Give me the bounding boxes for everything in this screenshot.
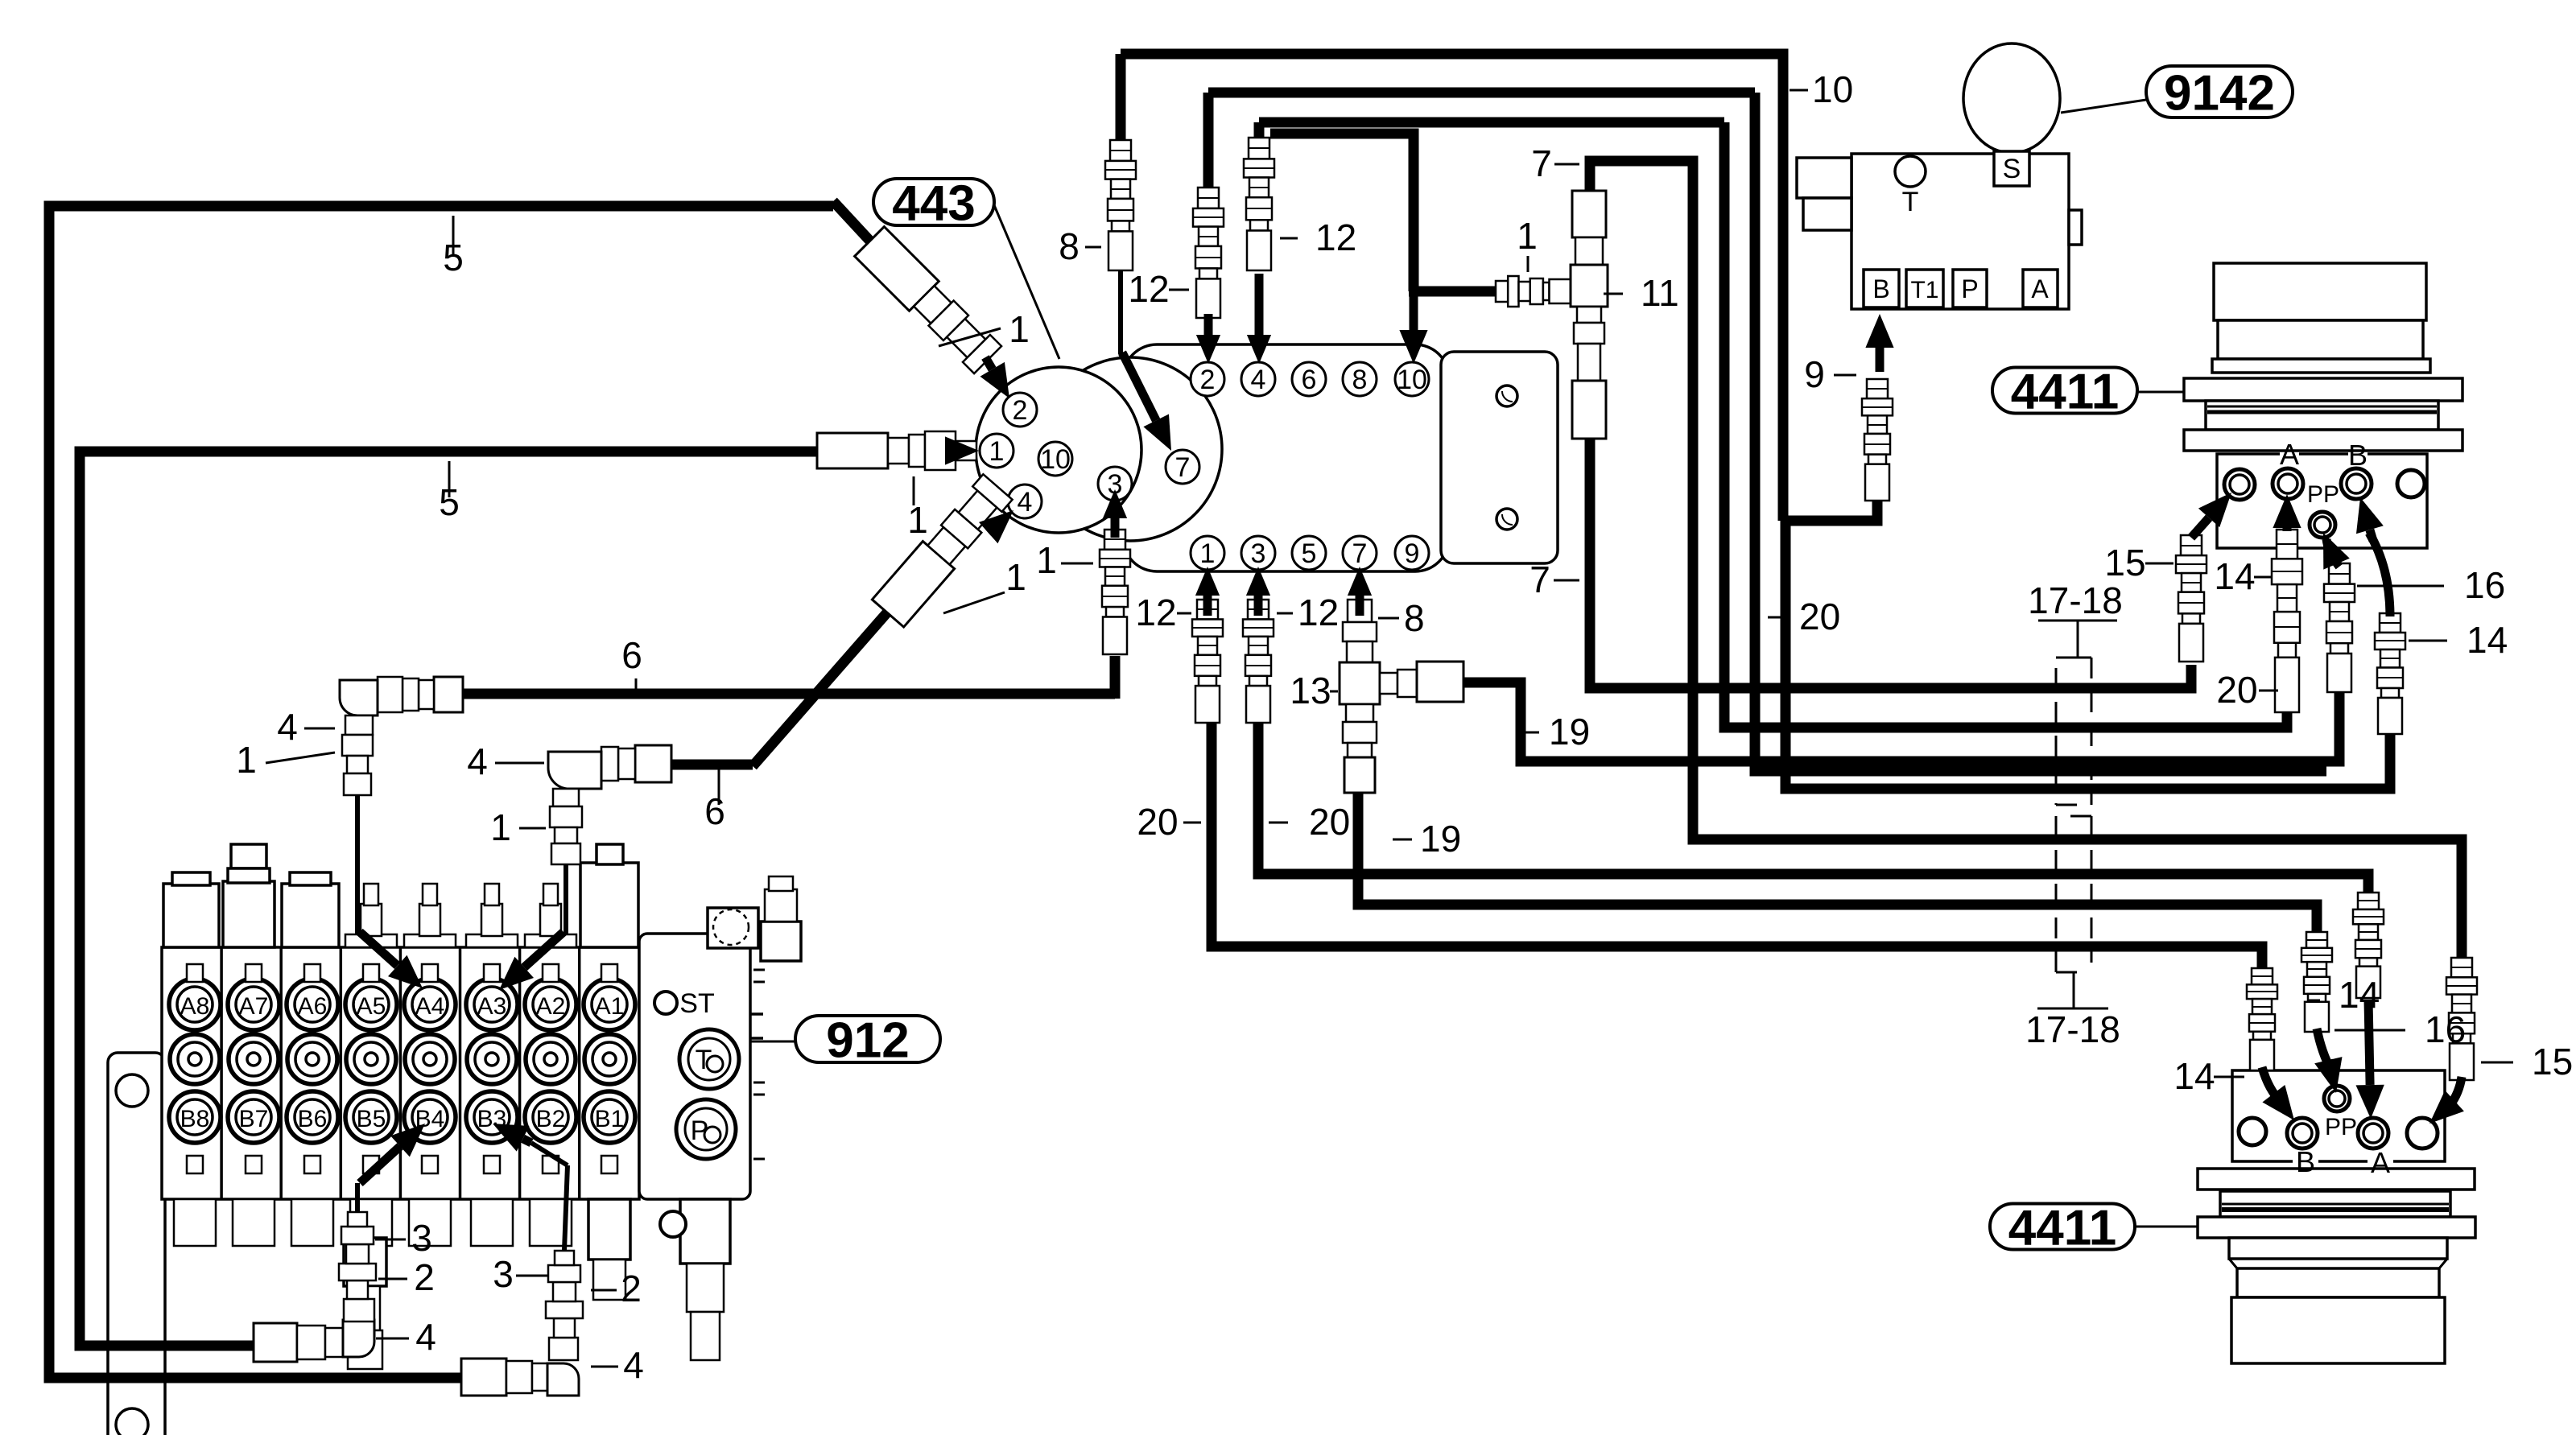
svg-text:2: 2: [414, 1256, 435, 1298]
port PP lower: [2324, 1086, 2350, 1111]
svg-text:1: 1: [1009, 308, 1030, 350]
svg-text:2: 2: [621, 1268, 642, 1309]
svg-text:S: S: [2003, 154, 2021, 184]
leader 443: [994, 205, 1059, 359]
svg-text:A2: A2: [536, 993, 566, 1020]
wire hose from tee to fitting 9: [1785, 499, 1877, 521]
svg-text:T: T: [696, 1045, 712, 1075]
fitting 15 stack: [2181, 535, 2202, 555]
fitting 12 stack below port 3: [1248, 600, 1269, 619]
hex cap fitting top right of 912: [761, 922, 801, 961]
svg-text:1: 1: [490, 806, 511, 848]
bottom cap B1 section: [588, 1199, 630, 1260]
spool circle section 8: [584, 1034, 634, 1084]
svg-text:20: 20: [1799, 596, 1840, 637]
joint face circle: [976, 367, 1141, 533]
spool circle section 6: [467, 1034, 517, 1084]
fitting 12 stack above port 2: [1198, 188, 1219, 208]
wire hose 6 from elbow to port3 stack: [358, 689, 1115, 699]
fitting 1 on hose 6 into face port 4 (diagonal): [872, 473, 1013, 627]
svg-text:4411: 4411: [2008, 1200, 2117, 1256]
ref bubble 912: [795, 1016, 940, 1062]
svg-text:14: 14: [2214, 555, 2255, 597]
svg-text:12: 12: [1135, 592, 1176, 633]
fitting 16 stack lower (PP): [2306, 932, 2327, 948]
wire hose 5 over plate (B4 run): [108, 1341, 254, 1351]
arrow into PP lower: [2324, 1060, 2334, 1062]
lower motor port block: [2232, 1070, 2445, 1161]
spool circle section 1: [170, 1034, 220, 1084]
svg-text:14: 14: [2467, 619, 2508, 661]
svg-text:6: 6: [621, 634, 642, 676]
fitting 3 (B3 line): [548, 1265, 580, 1282]
svg-text:20: 20: [2216, 669, 2257, 711]
ref bubble 9142: [2146, 66, 2293, 118]
svg-text:B1: B1: [595, 1106, 625, 1132]
912 top solenoid caps: [163, 884, 219, 947]
svg-text:A: A: [2031, 274, 2049, 303]
svg-text:4: 4: [1018, 487, 1033, 518]
fitting 12 stack below port 1: [1197, 600, 1218, 619]
fitting 1 left of tee 11: [1496, 281, 1508, 302]
lower taper: [2229, 1238, 2447, 1259]
wire hose row3b: [1755, 93, 2326, 771]
wire hose 5 (port2 to B3 elbow): top run, left drop, bottom run: [49, 206, 833, 1378]
motor flange 1: [2184, 378, 2462, 401]
svg-text:4: 4: [467, 740, 488, 782]
svg-text:10: 10: [1040, 444, 1071, 475]
arrow into A lower: [2368, 1000, 2370, 1085]
spool circle section 4: [346, 1034, 396, 1084]
svg-text:A5: A5: [357, 993, 386, 1020]
fitting 12 stack below face port 3: [1104, 530, 1125, 550]
wire hose 19 from tee13 elbow to top motor 16 fitting (row3): [1457, 682, 2339, 761]
port PP: [2310, 512, 2335, 538]
tee 11 body: [1571, 265, 1608, 307]
svg-text:1: 1: [236, 739, 257, 781]
912 A1 solenoid: [580, 863, 638, 947]
leader 17-18 top: [2077, 621, 2079, 658]
port B1: [584, 1091, 635, 1143]
arrow into B port: [2370, 530, 2373, 541]
port B3: [466, 1091, 518, 1143]
pilot valve 9142 body: [1851, 154, 2069, 309]
svg-text:ST: ST: [679, 988, 714, 1019]
accumulator ball: [1963, 43, 2060, 153]
fitting 12 stack above port 4: [1249, 138, 1269, 159]
fitting 1 below elbow 4 lower: [550, 806, 582, 827]
svg-text:7: 7: [1529, 559, 1550, 600]
svg-text:3: 3: [411, 1217, 432, 1259]
svg-text:6: 6: [1302, 365, 1317, 395]
svg-text:1: 1: [1200, 538, 1216, 569]
spool circle section 2: [229, 1034, 279, 1084]
arrow into face port 1: [945, 447, 955, 456]
arrow into port 3 bottom: [1254, 596, 1263, 616]
fitting 15 stack lower: [2451, 958, 2472, 977]
svg-text:1: 1: [1005, 556, 1026, 598]
wire hose row4 to top motor B fitting: [1785, 516, 2390, 789]
leader 9142: [2061, 100, 2146, 113]
svg-text:4411: 4411: [2011, 364, 2120, 419]
port spare lower: [2239, 1118, 2266, 1145]
ref bubble 443: [873, 179, 994, 225]
svg-text:4: 4: [277, 706, 298, 748]
wire hose 20 from port3 to lower motor A fitting (row6): [1258, 723, 2368, 893]
arrow into face port 4: [989, 531, 990, 533]
spool circle section 7: [526, 1034, 576, 1084]
lower flange 1: [2198, 1169, 2475, 1190]
wire hose 20 from port1 to lower motor 14 fitting (row8): [1212, 723, 2262, 968]
svg-text:4: 4: [1251, 365, 1266, 395]
svg-text:4: 4: [415, 1316, 436, 1358]
arrow into A4: [360, 932, 398, 966]
svg-text:5: 5: [1302, 538, 1317, 569]
svg-text:A8: A8: [180, 993, 210, 1020]
lower cylinder 1: [2237, 1268, 2439, 1297]
svg-text:1: 1: [1036, 539, 1057, 581]
motor segment 2: [2218, 320, 2423, 359]
port B4: [404, 1091, 456, 1143]
leader 912: [750, 1041, 795, 1043]
svg-text:A4: A4: [415, 993, 445, 1020]
arrow into port 2 top: [1204, 314, 1213, 335]
travel motor 4411 top: cylinder: [2214, 263, 2426, 320]
bottom cap end section: [680, 1199, 730, 1264]
wire hose 6 lower from elbow: [566, 760, 753, 770]
svg-text:T: T: [1902, 187, 1919, 217]
fitting 1 on hose 5 into face port 1 (horizontal): [817, 433, 888, 468]
svg-text:6: 6: [704, 790, 725, 832]
port B: [2341, 468, 2372, 499]
fitting 2 (B3 line): [546, 1301, 583, 1318]
port spare: [2397, 470, 2425, 497]
port A8: [169, 979, 221, 1030]
port A3: [466, 979, 518, 1030]
svg-text:2: 2: [1200, 365, 1216, 395]
svg-text:P: P: [691, 1115, 709, 1146]
motor flange 2: [2184, 430, 2462, 451]
svg-text:A6: A6: [298, 993, 328, 1020]
svg-text:11: 11: [1641, 272, 1679, 314]
svg-text:12: 12: [1315, 216, 1356, 258]
svg-text:17-18: 17-18: [2028, 579, 2123, 621]
bolt hole top: [1496, 386, 1517, 406]
svg-text:16: 16: [2464, 564, 2505, 606]
912 bottom caps: [174, 1199, 216, 1246]
port B lower: [2287, 1118, 2318, 1148]
lower flange 2: [2198, 1217, 2475, 1238]
motor port block: [2217, 454, 2427, 548]
hose end + elbow 4 (to B3): [461, 1359, 506, 1396]
port A2: [525, 979, 576, 1030]
arrow into A3: [524, 932, 563, 967]
svg-text:1: 1: [989, 436, 1005, 467]
motor ring band: [2206, 401, 2438, 430]
svg-text:14: 14: [2339, 974, 2380, 1016]
svg-text:A1: A1: [595, 993, 625, 1020]
wire hose 19 from tee13 down to lower 16 fitting (row7): [1358, 789, 2317, 932]
arrow into port 7 bottom: [1356, 596, 1364, 616]
fitting 1 on hose 5 into face port 2 (diagonal): [855, 227, 1003, 375]
port drain: [2224, 469, 2255, 500]
svg-text:3: 3: [1251, 538, 1266, 569]
svg-text:A3: A3: [477, 993, 507, 1020]
svg-text:8: 8: [1059, 225, 1080, 267]
port A lower: [2358, 1118, 2388, 1148]
ST port: [654, 992, 677, 1014]
fitting 14 stack lower (B): [2252, 968, 2273, 984]
joint mounting plate: [1441, 352, 1558, 563]
wire hose 10 top run: [1121, 54, 1783, 521]
svg-text:9142: 9142: [2164, 65, 2275, 121]
svg-text:10: 10: [1812, 68, 1853, 110]
svg-text:B: B: [2296, 1145, 2315, 1178]
wire hose 6 diagonal to port4 fitting: [753, 612, 888, 766]
svg-text:14: 14: [2173, 1055, 2215, 1097]
fitting 16 stack (PP): [2329, 563, 2350, 584]
port A1: [584, 979, 635, 1030]
arrow into A port: [2283, 528, 2292, 531]
svg-text:16: 16: [2425, 1008, 2466, 1050]
svg-text:12: 12: [1128, 268, 1169, 310]
arrow into face port 3: [1111, 518, 1120, 538]
wire hose (port 4 top) run: [1259, 118, 1724, 128]
T vent: [1895, 156, 1926, 187]
spool circle section 3: [287, 1034, 337, 1084]
svg-text:PP: PP: [2325, 1114, 2357, 1140]
fitting 8 stack above face port 7: [1110, 140, 1131, 161]
svg-text:13: 13: [1290, 670, 1331, 711]
arrow into B lower: [2273, 1094, 2278, 1099]
wire hose row2 to top motor A fitting: [1724, 122, 2287, 728]
port B8: [169, 1091, 221, 1143]
port B2: [525, 1091, 576, 1143]
svg-text:A: A: [2280, 438, 2299, 471]
port A4: [404, 979, 456, 1030]
svg-text:1: 1: [1517, 215, 1538, 257]
svg-text:8: 8: [1404, 597, 1425, 639]
wire thin hose down to A4: [355, 795, 360, 934]
svg-text:10: 10: [1397, 365, 1427, 395]
arrow into port 4 top: [1255, 274, 1264, 335]
bolt hole bottom: [1496, 509, 1517, 530]
wire riser into face port3 stack: [1110, 656, 1121, 699]
port A7: [228, 979, 279, 1030]
elbow 4 upper (to A4): [434, 677, 463, 712]
wire hose to port 10 branch: [1270, 134, 1414, 291]
fitting 14 stack (B): [2380, 613, 2401, 633]
svg-text:7: 7: [1175, 452, 1191, 483]
lower cylinder 2: [2231, 1297, 2445, 1363]
spool circle section 5: [405, 1034, 455, 1084]
elbow 4 lower (to A3): [635, 745, 671, 782]
port B6: [287, 1091, 338, 1143]
joint rear flange circle: [1038, 357, 1222, 541]
912 pilot stems: [345, 934, 397, 947]
wire hose 7 down from tee 11 then right to fitting 15 (row1): [1590, 191, 2191, 688]
wire drop to port2 fitting: [1203, 93, 1214, 188]
tee 13 body: [1340, 662, 1380, 704]
wire hose tee11 to port10 corner: [1409, 287, 1496, 297]
svg-text:B5: B5: [357, 1106, 386, 1132]
port A: [2273, 468, 2303, 499]
svg-text:8: 8: [1352, 365, 1368, 395]
port spare lower right: [2407, 1118, 2438, 1148]
svg-text:12: 12: [1298, 592, 1339, 633]
fitting 9 stack: [1867, 379, 1888, 398]
svg-text:2: 2: [1013, 395, 1028, 426]
wire thin hose up toward B4: [355, 1183, 360, 1212]
svg-text:PP: PP: [2307, 481, 2339, 508]
hose end + elbow 4 (to B4): [254, 1323, 297, 1362]
svg-text:B: B: [1872, 274, 1889, 303]
top ports row on joint body: [1191, 362, 1224, 396]
svg-text:T1: T1: [1910, 277, 1938, 303]
wire thin hose 8 down: [1118, 270, 1123, 354]
P port: [676, 1099, 736, 1159]
mounting plate left of 912: [108, 1053, 165, 1435]
arrow into port 1 bottom: [1203, 596, 1212, 616]
svg-text:B6: B6: [298, 1106, 328, 1132]
wire hose to lower motor 15 fitting (row5): [1590, 161, 2462, 958]
svg-text:1: 1: [907, 499, 928, 541]
fitting 14 stack lower (A): [2358, 893, 2379, 909]
svg-text:9: 9: [1405, 538, 1420, 569]
svg-text:19: 19: [1549, 711, 1590, 753]
svg-text:7: 7: [1531, 142, 1552, 184]
rotary joint 443 body: [1123, 344, 1449, 571]
fitting 2 (B4 line): [339, 1264, 376, 1280]
arrow into face port 7: [1122, 353, 1156, 420]
motor lip: [2212, 359, 2430, 373]
leader 4411 bottom: [2135, 1226, 2198, 1228]
bolt hole lug bottom of 912: [660, 1211, 686, 1237]
svg-text:A: A: [2371, 1146, 2390, 1179]
left tab lower: [1803, 198, 1851, 230]
face ports: [1003, 393, 1037, 427]
svg-text:17-18: 17-18: [2025, 1008, 2120, 1050]
wire hose 5 diagonal into fitting: [833, 201, 884, 256]
svg-text:3: 3: [493, 1253, 514, 1295]
912 end section with ST/T/P: [639, 934, 750, 1199]
wire drop to port4 fitting: [1254, 122, 1265, 138]
ref bubble 4411 top: [1992, 368, 2137, 414]
arrow into port 10 top: [1410, 290, 1418, 330]
fitting 14 stack (A): [2277, 530, 2297, 559]
arrow into drain port: [2191, 518, 2209, 538]
leader 4411 top: [2137, 391, 2184, 394]
arrow into B3: [523, 1139, 531, 1143]
arrow into spare port lower: [2447, 1101, 2454, 1107]
wire thin hose down to A3: [563, 864, 568, 934]
svg-text:B8: B8: [180, 1106, 210, 1132]
arrow into B4: [360, 1146, 400, 1183]
ref bubble 4411 bottom: [1990, 1204, 2135, 1250]
svg-text:B7: B7: [239, 1106, 269, 1132]
port B7: [228, 1091, 279, 1143]
svg-text:P: P: [1961, 274, 1978, 303]
svg-text:15: 15: [2104, 542, 2145, 583]
port A5: [345, 979, 397, 1030]
tee 13 right branch elbow: [1380, 673, 1397, 694]
bottom fitting section 6: [344, 1238, 386, 1286]
port A6: [287, 979, 338, 1030]
bottom port boxes B T1 P A: [1864, 270, 1899, 307]
right tab: [2069, 210, 2082, 245]
leader 17-18 bottom: [2073, 972, 2075, 1008]
svg-text:443: 443: [892, 175, 975, 231]
svg-text:4: 4: [623, 1344, 644, 1386]
clamp 17-18 dashed bundle: [2056, 658, 2091, 972]
arrow into face port 2: [985, 357, 993, 369]
svg-text:912: 912: [826, 1012, 909, 1068]
svg-text:15: 15: [2532, 1041, 2573, 1082]
svg-text:20: 20: [1137, 801, 1178, 843]
912 block body: [162, 947, 639, 1199]
arrow into PP port: [2328, 544, 2337, 564]
left tab upper: [1797, 158, 1851, 198]
912 relief valve on end section: [708, 908, 758, 948]
svg-text:20: 20: [1309, 801, 1350, 843]
fitting 1 below elbow 4 upper: [342, 735, 373, 756]
tee 11 hose end top: [1572, 191, 1606, 237]
arrow into valve port B: [1876, 348, 1885, 372]
wire hose (port 2 top) upper run: [1208, 88, 1755, 98]
svg-text:B2: B2: [536, 1106, 566, 1132]
bottom ports row on joint body: [1191, 536, 1224, 570]
wire hose drop to fitting 8: [1116, 54, 1126, 140]
svg-text:9: 9: [1804, 353, 1825, 395]
wire hose 5 over plate (B3 run): [108, 1373, 461, 1383]
svg-text:A7: A7: [239, 993, 269, 1020]
port B5: [345, 1091, 397, 1143]
T port: [679, 1029, 739, 1089]
lower ring band: [2220, 1191, 2450, 1217]
S port box: [1994, 151, 2029, 186]
fitting 3 (B4 line): [341, 1227, 374, 1244]
svg-text:19: 19: [1420, 818, 1461, 860]
wire thin hose up toward B3: [564, 1165, 568, 1251]
wire hose 5 (port1 to B4 elbow): [80, 452, 817, 1346]
fitting 1 + fitting 8 above tee 13: [1348, 600, 1372, 622]
svg-text:7: 7: [1352, 538, 1368, 569]
